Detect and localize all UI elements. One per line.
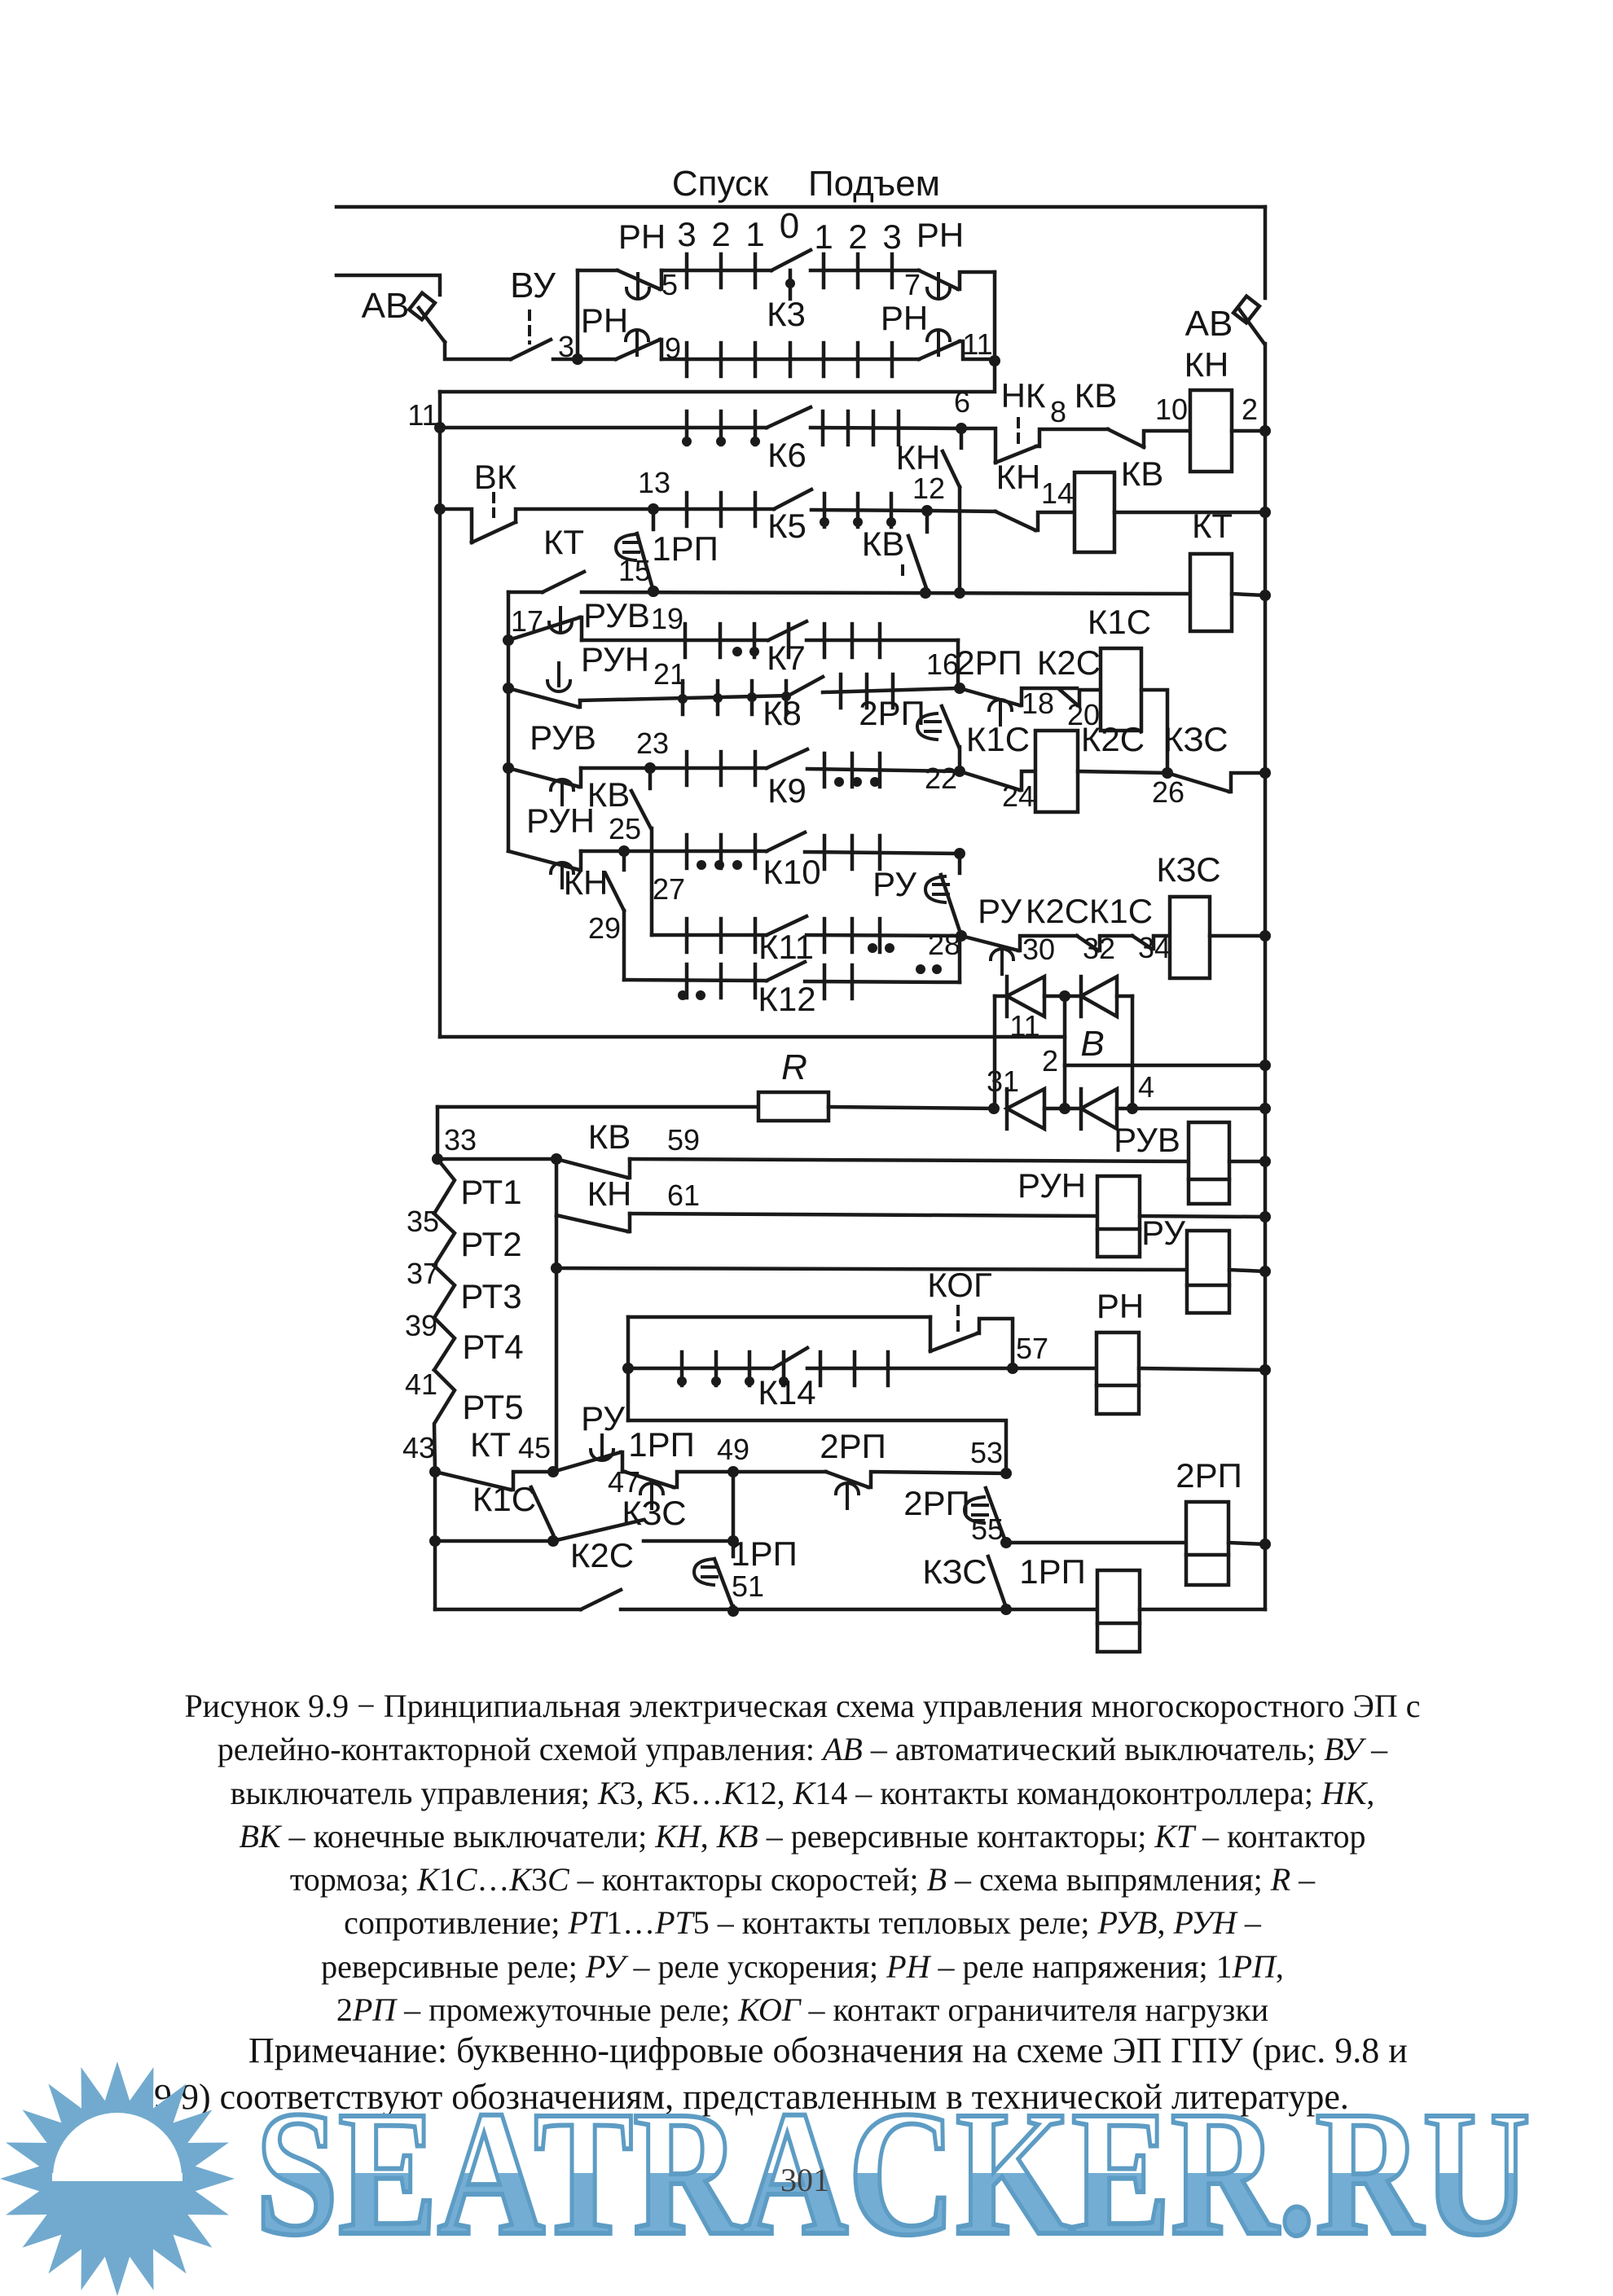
svg-text:3: 3 <box>677 215 696 253</box>
contact K5 row <box>653 507 774 511</box>
svg-text:КТ: КТ <box>470 1425 511 1464</box>
node 13 <box>648 503 659 515</box>
svg-text:КН: КН <box>896 438 941 476</box>
node K14 left <box>622 1363 634 1374</box>
svg-text:КВ: КВ <box>588 1117 631 1156</box>
svg-text:28: 28 <box>928 928 960 961</box>
svg-text:РТ5: РТ5 <box>462 1388 523 1426</box>
svg-text:Спуск: Спуск <box>672 164 769 204</box>
wire left bus <box>438 392 442 1037</box>
node 1РП drop top <box>727 1535 739 1547</box>
svg-text:11: 11 <box>407 398 437 432</box>
svg-text:К6: К6 <box>767 436 806 474</box>
wire node4 to bus <box>1132 1107 1265 1111</box>
svg-text:2РП – промежуточные реле; КОГ: 2РП – промежуточные реле; КОГ – контакт … <box>336 1991 1268 2028</box>
svg-text:РУН: РУН <box>581 640 649 678</box>
wire bridge mid vertical <box>1063 996 1067 1108</box>
svg-text:10: 10 <box>1155 393 1188 426</box>
wire R row left drop <box>436 1107 440 1159</box>
svg-text:К7: К7 <box>767 639 806 677</box>
wire РУ coil row <box>551 1262 562 1274</box>
contact K14 row <box>628 1367 773 1371</box>
svg-text:К5: К5 <box>767 507 806 545</box>
svg-text:3: 3 <box>558 330 574 363</box>
svg-text:26: 26 <box>1152 775 1184 809</box>
contact K7 row <box>582 639 768 643</box>
svg-text:РУ: РУ <box>1141 1214 1185 1252</box>
node 25 <box>618 845 630 857</box>
svg-text:39: 39 <box>405 1309 437 1342</box>
svg-text:2: 2 <box>1242 393 1258 426</box>
svg-text:РН: РН <box>1097 1287 1144 1325</box>
wire КЗС row <box>435 1539 553 1543</box>
node 11 left bus <box>434 422 446 433</box>
svg-text:3: 3 <box>882 217 901 256</box>
svg-text:30: 30 <box>1022 933 1055 966</box>
wire K14 loop bottom <box>628 1420 1006 1473</box>
node 3 <box>572 353 583 365</box>
svg-text:45: 45 <box>518 1431 551 1464</box>
svg-text:К2С: К2С <box>570 1536 634 1574</box>
svg-text:РН: РН <box>881 299 928 337</box>
diode lower right (4) <box>1079 1089 1083 1129</box>
svg-text:КЗС: КЗС <box>922 1552 987 1591</box>
svg-text:НК: НК <box>1001 376 1046 415</box>
svg-text:57: 57 <box>1016 1332 1048 1365</box>
svg-text:РУН: РУН <box>1017 1166 1086 1205</box>
node 51 <box>727 1605 739 1617</box>
wire bottom row <box>621 1608 1097 1612</box>
svg-text:КН: КН <box>587 1174 632 1213</box>
svg-text:К9: К9 <box>767 771 806 810</box>
svg-text:РТ4: РТ4 <box>462 1328 523 1366</box>
contact K10 row <box>581 849 767 854</box>
wire bridge right vertical <box>1131 996 1135 1108</box>
svg-text:К14: К14 <box>758 1373 815 1411</box>
svg-text:1РП: 1РП <box>628 1425 695 1464</box>
wire riser left mid <box>507 592 511 851</box>
svg-text:32: 32 <box>1083 932 1115 965</box>
svg-text:16: 16 <box>926 648 959 681</box>
contact K3 upper row <box>661 269 771 273</box>
svg-text:25: 25 <box>609 812 641 845</box>
svg-text:В: В <box>1080 1024 1104 1064</box>
svg-text:К8: К8 <box>763 694 802 732</box>
node 31 <box>988 1103 1000 1114</box>
node bridge mid bottom <box>1059 1103 1070 1114</box>
wire row 33 <box>437 1157 556 1161</box>
svg-text:РУ: РУ <box>872 865 916 903</box>
contact K8 row <box>580 696 789 700</box>
node bus rectifier <box>1259 1060 1271 1071</box>
node 26 <box>1162 767 1173 779</box>
svg-text:4: 4 <box>1138 1070 1154 1104</box>
svg-text:27: 27 <box>653 872 685 906</box>
node bottom 55 <box>1000 1604 1012 1615</box>
wire top supply line <box>336 205 1265 209</box>
svg-text:1: 1 <box>814 217 833 256</box>
node 22 <box>954 766 965 777</box>
svg-text:К3: К3 <box>767 295 806 333</box>
node КЗС row mid <box>547 1535 559 1547</box>
wire KT row <box>582 592 1190 594</box>
svg-text:6: 6 <box>954 385 970 419</box>
svg-text:59: 59 <box>667 1123 700 1157</box>
node 45 <box>547 1466 559 1477</box>
svg-text:РН: РН <box>581 301 628 340</box>
wire row 59 <box>630 1159 1189 1161</box>
contact K12 row <box>624 980 767 981</box>
node 59 branch <box>551 1153 562 1165</box>
node 11 right <box>989 355 1000 367</box>
svg-text:11: 11 <box>1009 1009 1039 1043</box>
svg-text:53: 53 <box>970 1436 1003 1469</box>
svg-text:Примечание: буквенно-цифровые: Примечание: буквенно-цифровые обозначени… <box>248 2030 1408 2070</box>
wire riser 49 down <box>732 1472 736 1556</box>
svg-text:43: 43 <box>402 1431 435 1464</box>
diode upper right <box>1079 977 1083 1016</box>
node 23 <box>644 762 656 774</box>
svg-text:РН: РН <box>618 217 666 256</box>
svg-text:1РП: 1РП <box>731 1534 798 1573</box>
wire РН7 riser <box>993 272 997 361</box>
svg-text:РТ1: РТ1 <box>460 1173 521 1211</box>
svg-text:R: R <box>781 1047 807 1087</box>
svg-text:К10: К10 <box>763 853 820 891</box>
wire K12 right riser <box>958 936 962 982</box>
svg-text:АВ: АВ <box>362 286 410 326</box>
svg-text:Подъем: Подъем <box>808 164 940 204</box>
svg-text:КН: КН <box>564 863 609 902</box>
svg-text:34: 34 <box>1138 931 1171 964</box>
node КЗС row left <box>429 1535 441 1547</box>
svg-text:К1С: К1С <box>966 720 1030 758</box>
svg-text:РН: РН <box>916 216 964 254</box>
svg-text:55: 55 <box>971 1512 1004 1546</box>
svg-text:2: 2 <box>1042 1044 1058 1078</box>
svg-text:КВ: КВ <box>1121 454 1163 493</box>
svg-text:1РП: 1РП <box>652 529 719 568</box>
wire right bus <box>1264 344 1268 1609</box>
svg-text:ВК – конечные выключатели; КН,: ВК – конечные выключатели; КН, КВ – реве… <box>239 1818 1365 1855</box>
svg-text:22: 22 <box>925 762 957 795</box>
wire row 61 <box>630 1214 1097 1216</box>
node 6 <box>956 423 967 434</box>
svg-text:РТ3: РТ3 <box>460 1277 521 1315</box>
svg-text:37: 37 <box>407 1257 439 1290</box>
svg-text:реверсивные реле; РУ – реле ус: реверсивные реле; РУ – реле ускорения; Р… <box>321 1948 1284 1985</box>
svg-text:КТ: КТ <box>1192 507 1233 545</box>
rectifier bridge В upper branch <box>995 994 1007 999</box>
contact K3 lower row <box>661 358 919 362</box>
svg-text:51: 51 <box>732 1569 764 1603</box>
svg-text:2РП: 2РП <box>903 1484 970 1522</box>
node 12 <box>921 505 933 516</box>
svg-text:К1С: К1С <box>1088 603 1151 641</box>
svg-text:РУ: РУ <box>978 892 1022 930</box>
svg-text:41: 41 <box>405 1368 437 1401</box>
node bridge mid top <box>1059 990 1070 1002</box>
wire left supply branch <box>336 275 440 295</box>
wire link 11 to box top <box>440 361 995 392</box>
svg-text:К2С: К2С <box>1037 643 1101 682</box>
wire row 55 <box>1006 1541 1186 1545</box>
svg-text:релейно-контакторной схемой уп: релейно-контакторной схемой управления: … <box>218 1731 1388 1767</box>
svg-text:КОГ: КОГ <box>927 1266 991 1304</box>
svg-text:11: 11 <box>962 327 992 361</box>
svg-text:2РП: 2РП <box>820 1427 886 1465</box>
svg-text:61: 61 <box>667 1179 700 1212</box>
node 33 <box>432 1153 443 1165</box>
svg-text:33: 33 <box>444 1123 477 1157</box>
node 21 riser <box>503 683 514 694</box>
node 57 <box>1007 1363 1018 1374</box>
svg-text:SEATRACKER.RU: SEATRACKER.RU <box>256 2074 1531 2272</box>
svg-text:КН: КН <box>1184 345 1229 384</box>
svg-text:РУВ: РУВ <box>1114 1121 1180 1159</box>
node 4 <box>1127 1103 1138 1114</box>
node 49 <box>727 1466 739 1477</box>
node VK row left <box>434 503 446 515</box>
svg-text:8: 8 <box>1050 395 1066 428</box>
svg-text:РУВ: РУВ <box>583 596 650 634</box>
svg-text:1: 1 <box>745 215 764 253</box>
svg-text:49: 49 <box>717 1433 749 1466</box>
node 28 <box>956 930 967 942</box>
wire node3 segment <box>553 358 578 362</box>
wire K7 right drop <box>956 640 960 688</box>
svg-text:ВК: ВК <box>474 458 517 496</box>
svg-text:РУВ: РУВ <box>530 718 596 757</box>
svg-text:18: 18 <box>1022 687 1054 720</box>
svg-text:2: 2 <box>711 215 730 253</box>
svg-text:1РП: 1РП <box>1019 1552 1086 1591</box>
svg-text:15: 15 <box>618 554 651 587</box>
svg-text:Рисунок 9.9 − Принципиальная э: Рисунок 9.9 − Принципиальная электрическ… <box>184 1688 1420 1724</box>
wire КОГ bypass <box>628 1315 930 1319</box>
svg-text:2: 2 <box>848 217 867 256</box>
svg-text:31: 31 <box>987 1065 1019 1098</box>
svg-text:7: 7 <box>904 268 921 301</box>
svg-text:К2С: К2С <box>1081 720 1145 758</box>
svg-text:12: 12 <box>912 472 945 505</box>
svg-text:К1С: К1С <box>1089 892 1153 930</box>
svg-text:К2С: К2С <box>1026 892 1089 930</box>
svg-text:КТ: КТ <box>543 523 584 561</box>
svg-text:КЗС: КЗС <box>1156 850 1220 889</box>
diode lower left <box>1005 1089 1009 1129</box>
watermark sun logo <box>0 2061 235 2296</box>
svg-text:29: 29 <box>588 911 621 945</box>
node 43 <box>429 1466 441 1477</box>
svg-text:2РП: 2РП <box>956 643 1022 682</box>
wire riser 59-61 <box>555 1159 559 1472</box>
contact K9 row <box>581 766 767 770</box>
wire upper box bottom <box>440 1035 1065 1039</box>
svg-text:301: 301 <box>780 2162 829 2198</box>
svg-text:2РП: 2РП <box>1176 1456 1242 1495</box>
svg-text:сопротивление; РТ1…РТ5 – конта: сопротивление; РТ1…РТ5 – контакты теплов… <box>344 1904 1262 1941</box>
svg-text:К12: К12 <box>758 980 815 1018</box>
svg-text:23: 23 <box>636 727 669 760</box>
svg-text:0: 0 <box>780 206 799 246</box>
svg-text:КЗС: КЗС <box>622 1494 686 1532</box>
svg-text:14: 14 <box>1041 476 1074 510</box>
diode 11 <box>1005 977 1009 1016</box>
svg-text:35: 35 <box>407 1205 439 1238</box>
svg-text:24: 24 <box>1002 779 1035 813</box>
svg-text:КВ: КВ <box>1075 376 1117 415</box>
node 25 right <box>954 848 965 859</box>
node 16 <box>954 683 965 694</box>
contact K6 row <box>440 426 767 430</box>
node K3 zero column <box>789 270 793 299</box>
svg-text:КН: КН <box>996 458 1041 496</box>
svg-text:19: 19 <box>651 602 683 635</box>
svg-text:РТ2: РТ2 <box>460 1225 521 1263</box>
wire bridge left vertical <box>993 996 997 1108</box>
svg-text:5: 5 <box>661 268 678 301</box>
svg-text:КВ: КВ <box>862 525 904 563</box>
node 17 <box>503 634 514 646</box>
svg-text:АВ: АВ <box>1185 304 1233 344</box>
svg-text:13: 13 <box>638 466 670 499</box>
svg-text:ВУ: ВУ <box>510 266 556 305</box>
svg-text:КЗС: КЗС <box>1163 720 1228 758</box>
svg-text:выключатель управления; К3, К5: выключатель управления; К3, К5…К12, К14 … <box>231 1775 1375 1811</box>
svg-text:2РП: 2РП <box>859 694 925 732</box>
svg-text:тормоза; К1С…К3С – контакторы: тормоза; К1С…К3С – контакторы скоростей;… <box>290 1861 1316 1898</box>
svg-text:РУ: РУ <box>581 1399 625 1438</box>
svg-text:РУН: РУН <box>526 801 595 840</box>
node 53 <box>1000 1468 1012 1479</box>
node 55 <box>1000 1537 1012 1548</box>
node 23 riser <box>503 762 514 774</box>
wire riser node3 <box>576 270 580 359</box>
svg-text:К1С: К1С <box>472 1480 536 1518</box>
